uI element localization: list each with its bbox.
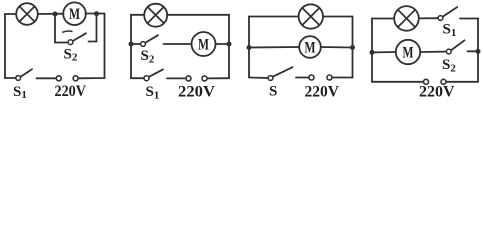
wire: C4 left edge xyxy=(371,19,373,82)
wire: C2 middle fixed contact to motor xyxy=(164,43,192,45)
switch S (C3) pivot circle xyxy=(268,76,273,81)
wire: C1 top-left from left edge to lamp xyxy=(5,13,16,15)
switch S1 (C2) blade xyxy=(149,69,163,76)
wire: C4 right edge xyxy=(477,19,479,82)
wire: C4 lamp to switch S1 xyxy=(419,17,438,19)
switch S2 (C1) contact squiggle xyxy=(63,31,72,32)
switch S2 (C1) blade xyxy=(73,33,86,41)
node left junction dot middle wire (C2) xyxy=(129,42,134,47)
motor M1 xyxy=(63,2,86,25)
motor M2 xyxy=(192,32,216,56)
node A1 junction dot left of motor xyxy=(53,12,58,17)
switch S2 (C4) pivot circle xyxy=(446,49,451,54)
wire: C4 middle from left edge to motor xyxy=(372,51,396,53)
source terminal right (C3) xyxy=(327,75,332,80)
wire: C2 bottom-left to switch S1 xyxy=(131,77,144,79)
wire: C4 bottom-left to source xyxy=(372,81,423,83)
wire: C3 top-left corner to lamp xyxy=(249,16,299,18)
wire: C2 S1 fixed side to source terminal xyxy=(167,77,186,79)
source terminal left (C1) xyxy=(56,76,61,81)
wire: C3 bottom-left to switch S xyxy=(249,77,268,80)
wire: C3 left edge xyxy=(248,17,250,78)
wire: C4 top-left corner to lamp xyxy=(372,18,394,20)
lamp L1 (circle with X) xyxy=(16,3,38,25)
source terminal right (C1) xyxy=(73,76,78,81)
wire: C2 middle from left edge to switch xyxy=(131,43,140,45)
wire: C1 S1 fixed side to source terminal xyxy=(37,77,56,79)
switch S1 (C1) pivot circle xyxy=(16,76,21,81)
source terminal right (C2) xyxy=(202,76,207,81)
lamp L3 (circle with X) xyxy=(299,4,323,28)
wire: C4 motor to switch S2 xyxy=(420,51,446,53)
wire: C2 left edge xyxy=(130,15,132,78)
source terminal right (C4) xyxy=(441,79,446,84)
switch S2 (C2) pivot circle xyxy=(141,42,146,47)
source terminal left (C3) xyxy=(309,75,314,80)
wire: C1 bottom-left to switch S1 xyxy=(5,77,16,79)
wire: C1 motor to right edge xyxy=(86,13,105,15)
svg-text:220V: 220V xyxy=(178,83,216,100)
svg-text:220V: 220V xyxy=(305,83,340,100)
node left junction dot middle wire (C4) xyxy=(370,50,375,55)
wire: C3 S fixed side to source terminal xyxy=(296,77,309,79)
wire: C3 motor to right edge xyxy=(321,46,353,49)
svg-text:M: M xyxy=(69,6,80,23)
source terminal left (C4) xyxy=(424,79,429,84)
wire: C1 left edge xyxy=(4,14,6,78)
wire: C3 source to bottom-right corner xyxy=(332,77,352,79)
lamp L4 (circle with X) xyxy=(394,6,419,31)
wire: C3 right edge xyxy=(352,17,354,78)
wire: C1 S2 fixed contact to right vertical xyxy=(89,14,97,42)
wire: C1 source to bottom-right corner and right edge xyxy=(79,14,105,79)
svg-text:M: M xyxy=(198,36,209,53)
switch S2 (C1) pivot circle xyxy=(68,40,73,45)
wire: C4 source to bottom-right corner xyxy=(446,81,478,83)
switch S1 (C4) pivot circle xyxy=(438,16,443,21)
wire: C2 right edge xyxy=(228,15,230,78)
wire: C1 S2-branch left vertical xyxy=(55,14,68,43)
wire: C2 top-left corner to lamp xyxy=(131,14,144,16)
node right junction dot middle wire (C2) xyxy=(227,42,232,47)
wire: C3 lamp to top-right corner xyxy=(323,16,353,18)
switch S1 (C1) blade xyxy=(21,69,32,77)
svg-text:M: M xyxy=(305,40,316,57)
svg-text:M: M xyxy=(403,45,414,62)
lamp L2 (circle with X) xyxy=(144,4,167,27)
source terminal left (C2) xyxy=(186,76,191,81)
wire: C2 lamp to top-right corner xyxy=(167,14,229,16)
node left junction dot middle wire (C3) xyxy=(247,45,252,50)
node B1 junction dot right of motor xyxy=(94,11,99,16)
motor M3 xyxy=(299,36,321,58)
switch S2 (C2) blade xyxy=(146,35,159,42)
switch S1 (C4) blade xyxy=(443,7,457,17)
wire: C2 source to bottom-right corner xyxy=(207,77,229,79)
wire: C4 S1 fixed side to top-right corner xyxy=(460,18,478,20)
switch S2 (C4) blade xyxy=(451,40,464,50)
wire: C4 S2 fixed side to right edge xyxy=(468,50,479,52)
node right junction dot middle wire (C4) xyxy=(476,49,481,54)
svg-text:S: S xyxy=(269,84,277,100)
wire: C3 middle from left edge to motor xyxy=(249,46,299,49)
switch S1 (C2) pivot circle xyxy=(144,76,149,81)
wire: C1 lamp to motor xyxy=(38,13,64,15)
svg-text:220V: 220V xyxy=(419,84,455,101)
svg-text:220V: 220V xyxy=(55,83,87,100)
switch S (C3) blade xyxy=(273,67,293,76)
motor M4 xyxy=(396,40,420,64)
wire: C2 motor to right edge xyxy=(216,43,230,45)
node right junction dot middle wire (C3) xyxy=(350,45,355,50)
